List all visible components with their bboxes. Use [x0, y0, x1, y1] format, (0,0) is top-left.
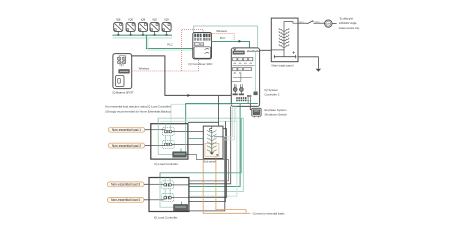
LC2 control module (dark)	[174, 202, 188, 211]
wire dark sub panel right link	[189, 129, 227, 198]
wire dark sub panel feed	[188, 121, 219, 123]
svg-text:(Strongly recommended for Home: (Strongly recommended for Home Essential…	[105, 109, 171, 113]
wire dark LC2 output up	[189, 121, 226, 202]
svg-text:Shutdown Switch: Shutdown Switch	[265, 112, 288, 116]
PV array bus	[113, 35, 173, 38]
pale green bundle controller bottom	[223, 106, 236, 139]
IQ Load Controller 2 box	[149, 178, 189, 212]
svg-text:Main loads panel: Main loads panel	[272, 64, 294, 68]
wire panel to meter with disconnect	[298, 21, 325, 24]
wire dark LC2 module to sub panel right	[188, 137, 225, 211]
sub panel essential section (tan)	[205, 143, 219, 156]
pill Non-essential load 3	[107, 182, 149, 187]
PV module 3 (IQ8)	[138, 23, 147, 37]
battery cell unit	[116, 76, 124, 87]
PV module 1 (IQ8)	[114, 23, 123, 37]
PV module 5 (IQ8)	[162, 23, 171, 37]
svg-text:Connect to essential loads: Connect to essential loads	[253, 212, 285, 216]
LC2 relay 2	[149, 194, 189, 202]
sub panel breaker ladder	[207, 126, 223, 155]
svg-text:Sub panel: Sub panel	[203, 160, 216, 164]
svg-text:Non-essential load 2: Non-essential load 2	[112, 144, 141, 148]
LC1 control module (dark)	[173, 148, 186, 157]
main loads panel box	[271, 18, 298, 62]
svg-text:To utility grid: To utility grid	[339, 17, 353, 21]
controller antenna	[234, 48, 237, 52]
PV module 2 (IQ8)	[126, 23, 135, 37]
LC2 internal feeders	[160, 178, 174, 208]
svg-text:Meter: Meter	[315, 20, 321, 23]
wire controller to shutdown switch	[247, 95, 251, 104]
wire green LC2 top loop	[160, 118, 241, 178]
band wire pale green right	[161, 121, 237, 196]
LC1 internal feeders	[158, 118, 186, 154]
IQ System Controller 2 box	[231, 48, 259, 107]
svg-text:IQ Load Controller: IQ Load Controller	[154, 162, 178, 166]
LC2 relay 1	[149, 181, 189, 189]
ground symbol	[316, 69, 321, 72]
band wire pale green LC1 to controller	[171, 104, 233, 124]
svg-text:IQ Combiner 4/4C: IQ Combiner 4/4C	[188, 62, 213, 66]
LC1 relay 1	[151, 128, 188, 136]
svg-text:kWh: kWh	[326, 24, 330, 26]
svg-text:IQ Load Controller: IQ Load Controller	[154, 216, 178, 220]
main panel breaker ladder	[271, 22, 298, 59]
pill Non-essential load 2	[108, 143, 151, 148]
orange wire essential loads 1	[203, 159, 250, 214]
svg-text:Enphase System: Enphase System	[265, 108, 288, 112]
battery IQ Battery 5P	[113, 54, 132, 89]
controller terminal strip bottom	[236, 97, 246, 101]
svg-text:IQ8: IQ8	[116, 17, 121, 21]
svg-text:Non-essential load rejection u: Non-essential load rejection using IQ Lo…	[105, 104, 172, 108]
controller breaker row 1	[233, 58, 255, 66]
controller breaker row 2	[231, 68, 252, 82]
combiner breaker row 1	[194, 34, 210, 41]
PV module 4 (IQ8)	[150, 23, 159, 37]
svg-text:Non-essential load 3: Non-essential load 3	[111, 183, 140, 187]
svg-text:IQ8: IQ8	[152, 17, 157, 21]
wire panel to ground	[298, 57, 318, 69]
sub panel box	[203, 126, 223, 158]
svg-text:IQ System: IQ System	[265, 88, 279, 92]
controller contactor M1	[233, 84, 238, 95]
svg-text:Controller 2: Controller 2	[265, 93, 280, 97]
band wire green LC1 to right bundle	[186, 104, 258, 187]
svg-text:120/240V single: 120/240V single	[339, 21, 357, 25]
svg-text:PLC: PLC	[220, 36, 225, 40]
controller contactor M2	[239, 84, 244, 95]
svg-text:IQ8: IQ8	[128, 17, 133, 21]
wire combiner to controller (green, with arrow)	[212, 41, 250, 48]
svg-text:Wireless: Wireless	[139, 67, 150, 71]
controller gateway module (dark)	[233, 51, 245, 54]
band wire teal LC1 to right bundle	[158, 118, 243, 191]
red dashed PLC box combiner to controller	[212, 33, 235, 41]
svg-text:Non-essential load 4: Non-essential load 4	[111, 198, 140, 202]
wire LC1 module daisy-chain to LC2	[186, 155, 228, 181]
wire dark controller to LC2	[189, 106, 231, 183]
wire PLC pair from PV bus to combiner	[146, 35, 192, 50]
wire teal combiner top to controller top	[194, 26, 258, 48]
IQ Load Controller 1 box	[151, 124, 188, 159]
pill Non-essential load 4	[107, 197, 149, 202]
svg-text:PLC: PLC	[167, 43, 172, 47]
svg-text:IQ Battery 5P/3T: IQ Battery 5P/3T	[113, 91, 134, 95]
wires LC1 to sub panel	[188, 132, 203, 145]
LC1 relay 2	[151, 141, 188, 149]
controller terminal line top	[247, 51, 260, 52]
svg-text:Wireless: Wireless	[216, 29, 227, 33]
combiner lower section	[194, 42, 211, 58]
controller teal terminal block	[254, 92, 258, 95]
svg-text:IQ8: IQ8	[141, 17, 146, 21]
IQ Combiner 4/4C box	[193, 33, 212, 59]
Enphase System Shutdown Switch	[252, 108, 261, 117]
battery internal comms module (dark)	[119, 70, 130, 74]
wire battery AC to controller	[132, 56, 232, 96]
wireless link battery to combiner/controller (red dashed)	[132, 29, 203, 71]
svg-text:Non-essential load 1: Non-essential load 1	[112, 128, 141, 132]
svg-text:phase service only: phase service only	[339, 26, 360, 30]
orange wire essential loads 2	[216, 157, 246, 214]
battery internal microinverter cluster	[118, 56, 126, 67]
pill Non-essential load 1	[108, 127, 151, 132]
wire controller to main panel	[260, 49, 272, 51]
svg-text:IQ8: IQ8	[164, 17, 169, 21]
kWh meter	[325, 20, 337, 27]
